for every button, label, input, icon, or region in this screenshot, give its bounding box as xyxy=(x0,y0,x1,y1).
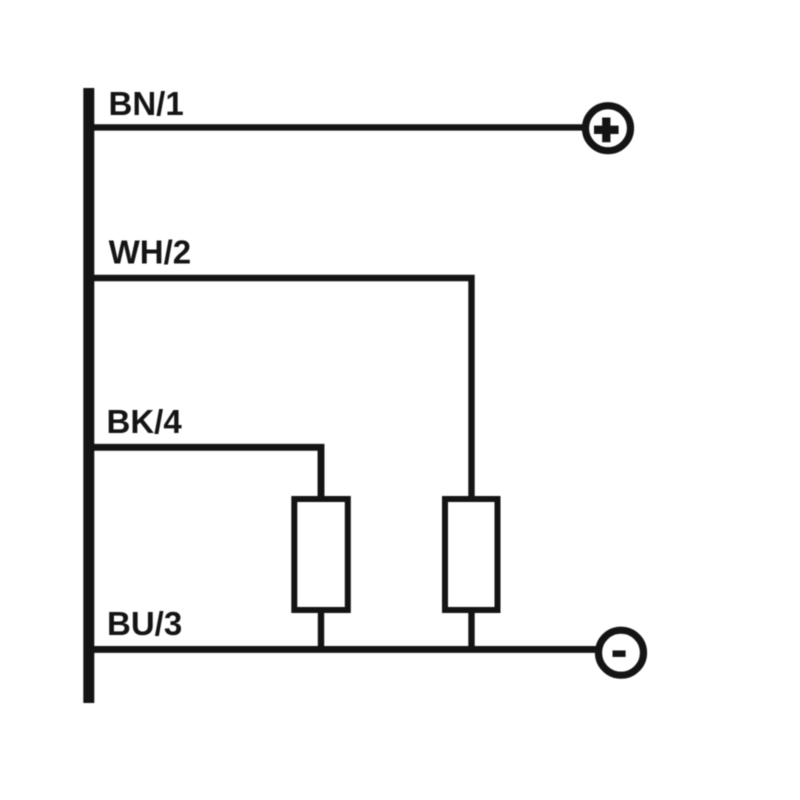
resistor R1 (left load) xyxy=(294,499,348,610)
wire R1 bottom to BU/3 xyxy=(318,610,324,651)
minus sign xyxy=(613,650,626,657)
wire BN/1 to plus terminal xyxy=(88,124,584,130)
sensor body bus bar xyxy=(83,88,94,703)
wire R2 bottom to BU/3 xyxy=(468,610,474,651)
plus terminal circle xyxy=(586,106,631,151)
svg-text:BN/1: BN/1 xyxy=(109,85,184,122)
resistor R2 (right load) xyxy=(445,499,498,610)
wire BK/4 to left resistor xyxy=(88,447,321,499)
plus sign xyxy=(594,118,619,143)
svg-text:WH/2: WH/2 xyxy=(109,234,192,271)
svg-text:BU/3: BU/3 xyxy=(107,605,182,642)
wire WH/2 to right resistor xyxy=(88,278,472,499)
svg-text:BK/4: BK/4 xyxy=(107,403,183,440)
minus terminal circle xyxy=(599,630,644,675)
wire BU/3 to minus terminal xyxy=(88,646,598,653)
